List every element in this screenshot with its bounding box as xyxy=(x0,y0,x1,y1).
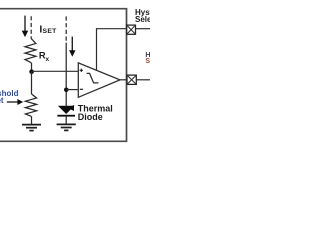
comparator + input mark xyxy=(80,69,83,72)
svg-text:Diode: Diode xyxy=(78,112,103,122)
diode branch current arrow xyxy=(69,37,75,57)
pin pad (hysteresis select) xyxy=(127,25,136,34)
hysteresis set wire from pin to comparator top xyxy=(97,29,128,71)
svg-text:Set: Set xyxy=(0,96,4,105)
thermal diode xyxy=(57,106,75,117)
wire junction to comparator + input xyxy=(32,70,79,72)
wire diode to ground xyxy=(65,117,67,125)
comparator - input mark xyxy=(80,88,83,90)
op-amp comparator U1 xyxy=(78,63,120,97)
resistor Rx zigzag xyxy=(25,39,36,63)
wire down to diode xyxy=(65,43,67,106)
dashed lead into thermal diode branch xyxy=(65,16,67,42)
ISET current arrow xyxy=(22,16,29,37)
wire Rx bottom to junction xyxy=(31,63,33,72)
threshold resistor zigzag xyxy=(25,94,36,116)
hysteresis glyph inside comparator xyxy=(87,73,99,83)
wire pin to right edge (output) xyxy=(136,79,150,81)
threshold set arrow xyxy=(7,99,23,105)
label arrow to thermal diode xyxy=(68,105,74,111)
node junction dot (diode / comparator - input) xyxy=(64,88,69,93)
wire junction to comparator - input xyxy=(66,89,78,91)
comparator output wire to pin xyxy=(119,79,127,81)
svg-text:x: x xyxy=(46,56,50,63)
ground (left) xyxy=(22,125,41,131)
pin pad (output) xyxy=(127,75,136,84)
svg-text:SET: SET xyxy=(43,28,58,35)
node junction dot xyxy=(29,69,34,74)
ground (diode) xyxy=(57,124,76,130)
dashed lead into resistor Rx xyxy=(30,16,32,38)
chip box border (top, right, bottom) xyxy=(0,9,127,142)
wire resistor to ground xyxy=(31,116,33,124)
svg-text:Select: Select xyxy=(135,15,150,24)
wire junction down to threshold resistor xyxy=(31,72,33,94)
svg-text:S: S xyxy=(145,58,150,65)
wire pin to right edge (hysteresis) xyxy=(136,28,151,30)
